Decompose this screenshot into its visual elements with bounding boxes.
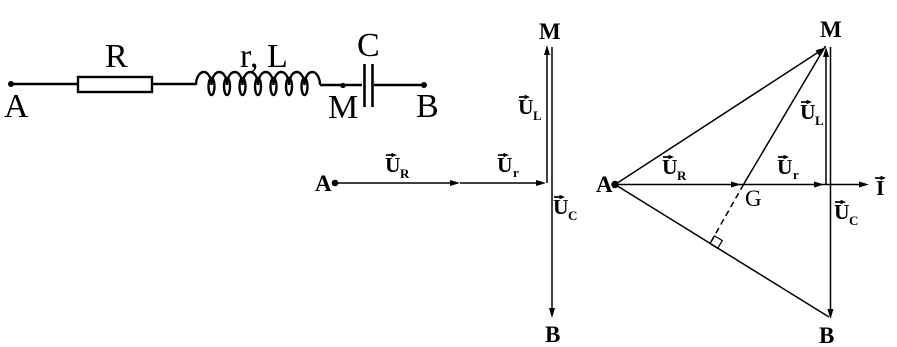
svg-text:A: A bbox=[596, 172, 613, 197]
svg-text:C: C bbox=[849, 213, 858, 228]
resistor R bbox=[78, 38, 152, 92]
svg-text:r: r bbox=[793, 167, 799, 182]
svg-text:r, L: r, L bbox=[240, 38, 288, 75]
svg-text:G: G bbox=[745, 186, 762, 211]
vector U_r (middle) bbox=[460, 180, 546, 186]
node A (middle diagram) bbox=[315, 171, 338, 196]
svg-text:M: M bbox=[539, 19, 561, 44]
right-angle mark bbox=[710, 236, 722, 249]
svg-text:R: R bbox=[105, 38, 128, 75]
svg-text:L: L bbox=[533, 108, 542, 123]
vector U_L (right) bbox=[823, 47, 829, 185]
vector U_C from M to B (middle) bbox=[549, 47, 555, 318]
node A bbox=[4, 81, 29, 125]
vector M to B (U_C, right) bbox=[828, 47, 834, 319]
node M bbox=[328, 83, 358, 126]
inductor r,L bbox=[196, 38, 320, 95]
vector U_R (middle) bbox=[338, 180, 460, 186]
svg-text:L: L bbox=[815, 113, 824, 128]
svg-text:C: C bbox=[568, 208, 577, 223]
node A (right diagram) bbox=[596, 172, 619, 197]
svg-text:R: R bbox=[400, 166, 410, 181]
svg-text:B: B bbox=[819, 323, 834, 347]
svg-text:r: r bbox=[513, 165, 519, 180]
svg-text:M: M bbox=[328, 89, 358, 126]
dashed perpendicular G to foot on AB bbox=[710, 185, 744, 244]
svg-text:C: C bbox=[357, 27, 380, 64]
wire bbox=[152, 83, 196, 85]
label U_L (right) bbox=[800, 100, 824, 128]
label U_L (middle) bbox=[518, 95, 542, 123]
vector A to M bbox=[615, 48, 826, 185]
node B bbox=[416, 82, 439, 125]
wire bbox=[320, 84, 362, 86]
label U_r (right) bbox=[777, 155, 799, 182]
vector U_L (middle) bbox=[544, 45, 550, 183]
svg-text:B: B bbox=[545, 322, 560, 347]
axis I with vector U_R tip, U_r tip and axis arrowhead bbox=[618, 182, 869, 188]
svg-text:A: A bbox=[4, 88, 29, 125]
wire bbox=[374, 84, 424, 86]
label I (axis) bbox=[875, 176, 886, 200]
label U_C (middle) bbox=[553, 195, 577, 223]
label U_r (middle) bbox=[497, 153, 519, 180]
label U_R (right) bbox=[662, 155, 687, 183]
capacitor C bbox=[357, 27, 380, 107]
line M to G bbox=[744, 46, 826, 185]
label U_C (right) bbox=[834, 200, 858, 228]
svg-text:M: M bbox=[820, 17, 842, 42]
svg-text:I: I bbox=[876, 176, 884, 200]
line A to B bbox=[615, 185, 829, 318]
svg-text:A: A bbox=[315, 171, 332, 196]
wire bbox=[13, 83, 78, 85]
svg-text:R: R bbox=[677, 168, 687, 183]
label U_R (middle) bbox=[385, 153, 410, 181]
svg-text:B: B bbox=[416, 88, 439, 125]
